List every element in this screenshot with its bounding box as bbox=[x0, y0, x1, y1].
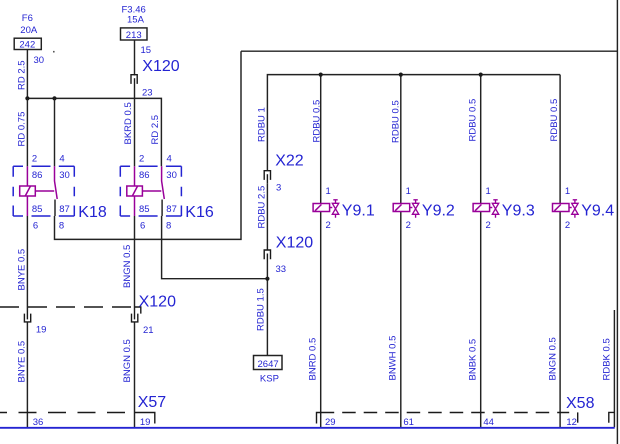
connector symbol X120 pin 19 bbox=[26, 311, 28, 319]
svg-text:2647: 2647 bbox=[258, 359, 279, 370]
svg-text:K18: K18 bbox=[78, 204, 107, 221]
connector X58 start bracket at pin 29 bbox=[317, 413, 321, 424]
junction at K18 pin 4 wire bbox=[52, 96, 56, 100]
svg-text:X22: X22 bbox=[275, 152, 304, 169]
connector X57 pin bracket bbox=[135, 413, 155, 424]
svg-text:242: 242 bbox=[19, 40, 35, 51]
svg-text:RDBU 0.5: RDBU 0.5 bbox=[391, 100, 402, 143]
svg-text:KSP: KSP bbox=[260, 374, 279, 385]
connector X120 dashed line (bottom left) bbox=[0, 306, 135, 308]
svg-text:1: 1 bbox=[565, 186, 570, 197]
svg-text:30: 30 bbox=[166, 170, 177, 181]
svg-text:BNWH 0.5: BNWH 0.5 bbox=[388, 336, 399, 381]
wire BKRD 0.5 from X120 pin 23 down to relay K16 bbox=[134, 88, 136, 166]
svg-text:1: 1 bbox=[406, 186, 411, 197]
svg-text:86: 86 bbox=[32, 170, 43, 181]
wire RD 2.5 from F6 down to rail bbox=[26, 50, 28, 99]
junction at F6 wire bbox=[25, 96, 29, 100]
svg-text:BNGN 0.5: BNGN 0.5 bbox=[122, 245, 133, 288]
KSP box 2647 bbox=[254, 356, 283, 385]
K18 dashed outline bbox=[13, 166, 74, 216]
svg-text:8: 8 bbox=[166, 221, 171, 232]
solenoid valve Y9.3 bbox=[473, 186, 535, 231]
solenoid valve Y9.1 bbox=[313, 186, 375, 231]
svg-text:30: 30 bbox=[34, 55, 45, 66]
connector symbol X120 pin 33 bbox=[264, 250, 270, 259]
svg-text:Y9.4: Y9.4 bbox=[581, 203, 614, 220]
Y9.4 coil bbox=[553, 204, 570, 212]
svg-text:RD 2.5: RD 2.5 bbox=[17, 60, 28, 90]
valve feed rail bbox=[267, 75, 560, 171]
valve wire Y9.1 bbox=[320, 75, 322, 427]
svg-text:21: 21 bbox=[143, 325, 154, 336]
K16 coil wire bbox=[134, 166, 136, 216]
fuse F3.46 label bbox=[122, 5, 146, 26]
svg-text:4: 4 bbox=[167, 154, 172, 165]
svg-text:1: 1 bbox=[486, 186, 491, 197]
svg-text:2: 2 bbox=[406, 220, 411, 231]
svg-text:2: 2 bbox=[565, 220, 570, 231]
svg-text:2: 2 bbox=[486, 220, 491, 231]
K18 coil bbox=[20, 186, 36, 196]
svg-text:30: 30 bbox=[59, 170, 70, 181]
connector X58 pin 12 tick bbox=[577, 412, 579, 422]
svg-text:BNRD 0.5: BNRD 0.5 bbox=[308, 338, 319, 381]
svg-text:BKRD 0.5: BKRD 0.5 bbox=[123, 102, 134, 144]
svg-text:RD 0.75: RD 0.75 bbox=[17, 112, 28, 147]
connector symbol X22 pin 3 bbox=[264, 171, 270, 180]
connector X58 right bracket bbox=[609, 412, 615, 422]
wire to K18 pin 4 bbox=[54, 98, 56, 166]
svg-text:4: 4 bbox=[59, 154, 64, 165]
right border line bbox=[616, 0, 618, 444]
svg-text:20A: 20A bbox=[20, 25, 38, 36]
solenoid valve Y9.4 bbox=[553, 186, 615, 231]
Y9.4 valve body bbox=[572, 203, 578, 214]
Y9.1 coil bbox=[313, 204, 330, 212]
svg-text:2: 2 bbox=[326, 220, 331, 231]
svg-text:X57: X57 bbox=[138, 394, 167, 411]
svg-text:F6: F6 bbox=[22, 13, 33, 24]
svg-text:86: 86 bbox=[139, 170, 150, 181]
svg-text:BNYE 0.5: BNYE 0.5 bbox=[17, 249, 28, 291]
wire RDBK 0.5 bbox=[613, 310, 615, 427]
K18 coil wire bbox=[26, 166, 28, 216]
speck artifact bbox=[53, 51, 55, 53]
K16 dashed outline bbox=[120, 166, 181, 216]
fuse F6 box 242 bbox=[14, 38, 41, 50]
wire K16 pin 8 to RDBU junction bbox=[162, 216, 268, 279]
svg-text:RD 2.5: RD 2.5 bbox=[150, 115, 161, 145]
connector X57 dashed line bbox=[0, 412, 128, 414]
K18 coil-contact link bbox=[35, 190, 54, 192]
K18 contact output wire bbox=[54, 200, 56, 217]
K16 coil bbox=[127, 186, 143, 196]
wire RDBU 2.5 bbox=[266, 183, 268, 250]
connector X58 dashed line bbox=[321, 412, 570, 414]
valve wire Y9.2 bbox=[400, 75, 402, 427]
svg-text:RDBU 0.5: RDBU 0.5 bbox=[468, 99, 479, 142]
valve wire Y9.4 bbox=[559, 75, 561, 427]
fuse F3.46 box 213 bbox=[121, 28, 148, 41]
svg-text:29: 29 bbox=[325, 417, 336, 428]
svg-text:BNGN 0.5: BNGN 0.5 bbox=[548, 337, 559, 380]
relay K16 bbox=[120, 154, 214, 232]
svg-text:44: 44 bbox=[483, 417, 494, 428]
svg-text:2: 2 bbox=[32, 154, 37, 165]
svg-text:RDBU 0.5: RDBU 0.5 bbox=[311, 100, 322, 143]
svg-text:36: 36 bbox=[33, 417, 44, 428]
svg-text:Y9.1: Y9.1 bbox=[342, 203, 375, 220]
junction Y9.2 tap bbox=[399, 73, 403, 77]
Y9.3 coil bbox=[473, 204, 490, 212]
svg-text:85: 85 bbox=[139, 204, 150, 215]
svg-text:BNBK 0.5: BNBK 0.5 bbox=[468, 339, 479, 381]
K16 contact blade bbox=[162, 166, 165, 199]
K16 coil-contact link bbox=[142, 190, 161, 192]
svg-text:Y9.2: Y9.2 bbox=[422, 203, 455, 220]
svg-text:X120: X120 bbox=[142, 58, 179, 75]
Y9.1 valve body bbox=[332, 203, 338, 214]
svg-text:6: 6 bbox=[33, 221, 38, 232]
svg-text:15: 15 bbox=[141, 45, 152, 56]
relay K18 bbox=[13, 154, 107, 232]
ground bus line bbox=[0, 427, 615, 429]
solenoid valve Y9.2 bbox=[393, 186, 455, 231]
wire RDBU 1.5 to KSP bbox=[266, 263, 268, 356]
svg-text:19: 19 bbox=[36, 324, 47, 335]
svg-text:23: 23 bbox=[142, 88, 153, 99]
svg-text:87: 87 bbox=[166, 204, 177, 215]
connector symbol X120 pin 21 bbox=[134, 311, 136, 319]
fuse F6 label bbox=[20, 13, 38, 36]
svg-text:BNYE 0.5: BNYE 0.5 bbox=[17, 341, 28, 383]
svg-text:87: 87 bbox=[59, 204, 70, 215]
wire RD 0.75 down to K18 coil bbox=[26, 98, 28, 166]
K18 contact blade bbox=[55, 166, 58, 199]
svg-text:6: 6 bbox=[140, 221, 145, 232]
svg-text:X120: X120 bbox=[276, 235, 313, 252]
valve wire Y9.3 bbox=[480, 75, 482, 427]
K16 contact output wire bbox=[161, 200, 163, 217]
svg-text:BNGN 0.5: BNGN 0.5 bbox=[122, 339, 133, 382]
wire K18 pin 8 to riser bbox=[55, 51, 242, 239]
svg-text:RDBU 1.5: RDBU 1.5 bbox=[256, 288, 267, 331]
junction Y9.3 tap bbox=[479, 73, 483, 77]
Y9.2 coil bbox=[393, 204, 410, 212]
junction with K16 pin 8 bbox=[265, 277, 269, 281]
svg-text:213: 213 bbox=[126, 30, 142, 41]
svg-text:12: 12 bbox=[566, 417, 577, 428]
svg-text:RDBK 0.5: RDBK 0.5 bbox=[602, 338, 613, 380]
svg-text:RDBU 0.5: RDBU 0.5 bbox=[549, 99, 560, 142]
Y9.3 valve body bbox=[492, 203, 498, 214]
supply rail from F6 bbox=[27, 98, 161, 166]
wire BNGN 0.5 : K16 pin 6 down bbox=[134, 216, 136, 427]
svg-text:1: 1 bbox=[326, 186, 331, 197]
svg-text:8: 8 bbox=[59, 221, 64, 232]
svg-text:85: 85 bbox=[32, 204, 43, 215]
top feed rail to right edge bbox=[241, 50, 617, 52]
svg-text:15A: 15A bbox=[127, 15, 145, 26]
svg-text:K16: K16 bbox=[185, 204, 214, 221]
svg-text:19: 19 bbox=[140, 417, 151, 428]
svg-text:Y9.3: Y9.3 bbox=[502, 203, 535, 220]
svg-text:RDBU 2.5: RDBU 2.5 bbox=[257, 186, 268, 229]
junction Y9.1 tap bbox=[319, 73, 323, 77]
svg-text:X120: X120 bbox=[139, 293, 176, 310]
svg-text:X58: X58 bbox=[566, 395, 595, 412]
svg-text:2: 2 bbox=[139, 154, 144, 165]
wire BNYE 0.5 : K18 pin 6 down bbox=[26, 216, 28, 427]
wire from fuse 213 down to connector X120 pin 15 bbox=[134, 40, 136, 76]
connector symbol X120 pin 15/23 bbox=[131, 75, 137, 84]
Y9.2 valve body bbox=[412, 203, 418, 214]
svg-text:3: 3 bbox=[276, 183, 281, 194]
svg-text:RDBU 1: RDBU 1 bbox=[257, 107, 268, 142]
svg-text:61: 61 bbox=[403, 417, 414, 428]
svg-text:33: 33 bbox=[276, 264, 287, 275]
